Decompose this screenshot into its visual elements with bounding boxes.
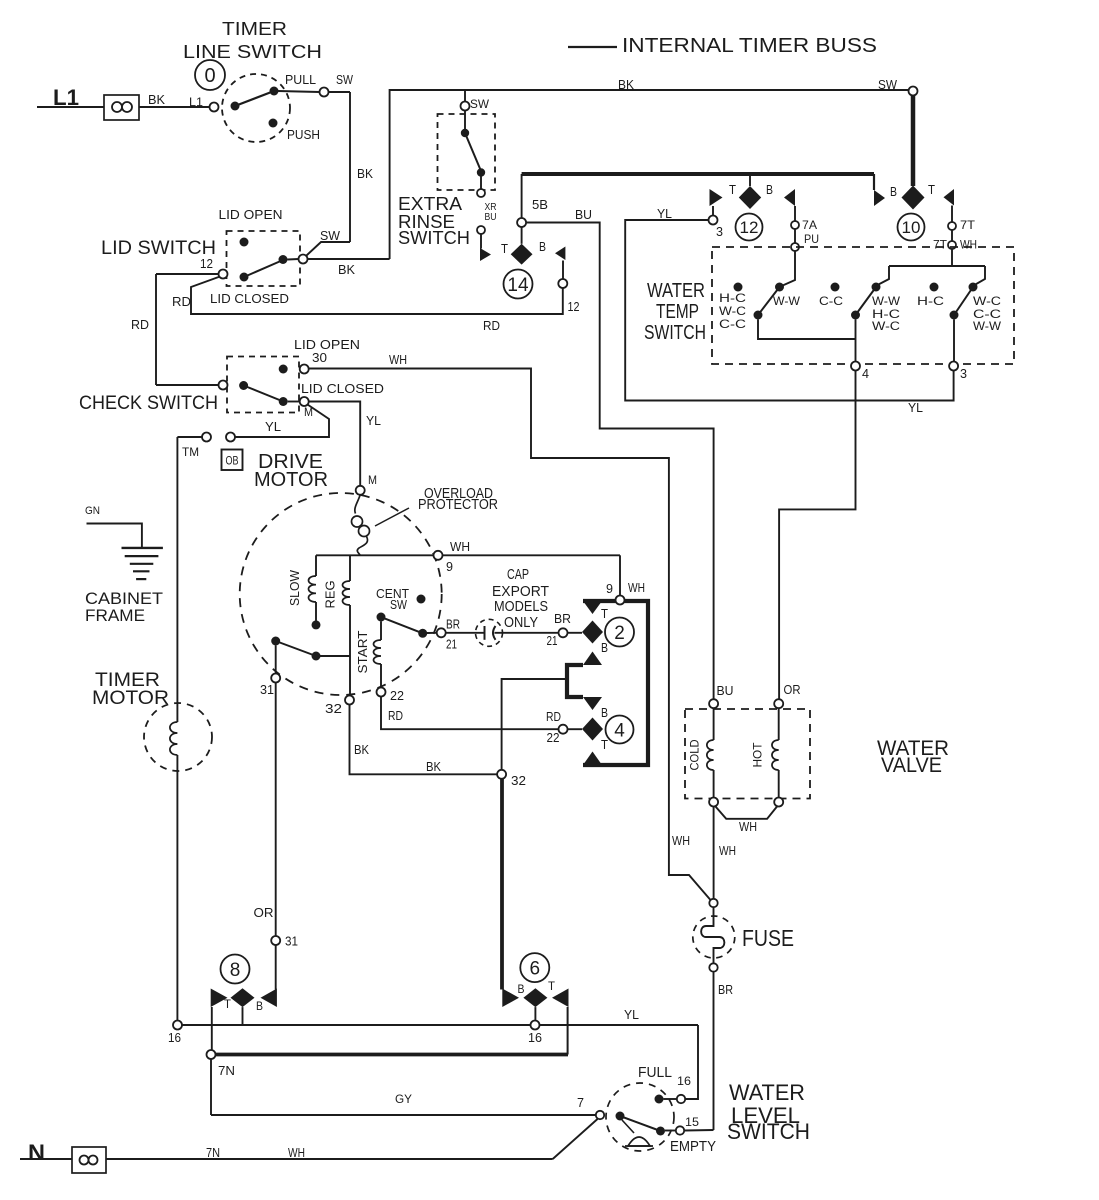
svg-text:SWITCH: SWITCH (727, 1119, 810, 1144)
svg-text:YL: YL (366, 413, 381, 428)
svg-text:C-C: C-C (819, 294, 843, 308)
svg-text:BK: BK (338, 262, 355, 277)
svg-text:SLOW: SLOW (287, 569, 302, 606)
svg-text:COLD: COLD (688, 739, 702, 770)
svg-text:SW: SW (390, 597, 408, 612)
svg-text:7N: 7N (218, 1063, 235, 1078)
svg-text:16: 16 (677, 1074, 691, 1088)
svg-text:FRAME: FRAME (85, 606, 145, 625)
svg-text:RD: RD (546, 709, 561, 724)
svg-text:MOTOR: MOTOR (254, 469, 328, 491)
svg-text:7N: 7N (206, 1145, 220, 1160)
svg-text:WATER: WATER (647, 280, 705, 302)
svg-text:EXTRA: EXTRA (398, 194, 462, 214)
svg-text:PUSH: PUSH (287, 127, 320, 142)
svg-text:H-C: H-C (917, 294, 944, 308)
svg-text:T: T (729, 182, 736, 197)
svg-text:MOTOR: MOTOR (92, 688, 169, 709)
svg-text:H-C: H-C (719, 291, 746, 305)
svg-text:W-C: W-C (719, 304, 746, 318)
svg-text:PROTECTOR: PROTECTOR (418, 497, 498, 513)
svg-text:31: 31 (260, 682, 274, 697)
svg-text:BU: BU (485, 212, 497, 223)
svg-text:VALVE: VALVE (881, 754, 942, 777)
svg-text:MODELS: MODELS (494, 598, 548, 615)
svg-text:BU: BU (717, 683, 734, 698)
svg-text:GN: GN (85, 505, 100, 517)
svg-text:T: T (224, 997, 232, 1011)
svg-text:7A: 7A (802, 218, 817, 232)
svg-text:WH: WH (960, 238, 977, 252)
svg-text:5B: 5B (532, 197, 548, 212)
svg-text:B: B (766, 182, 773, 197)
svg-text:GY: GY (395, 1092, 412, 1106)
svg-text:W-W: W-W (773, 294, 801, 308)
svg-text:8: 8 (230, 960, 241, 981)
svg-text:9: 9 (606, 581, 613, 596)
svg-text:LINE SWITCH: LINE SWITCH (183, 42, 322, 62)
svg-text:INTERNAL TIMER BUSS: INTERNAL TIMER BUSS (622, 35, 877, 57)
svg-text:EMPTY: EMPTY (670, 1138, 716, 1155)
svg-text:OB: OB (226, 454, 239, 468)
svg-text:32: 32 (511, 773, 526, 788)
svg-text:BK: BK (148, 92, 165, 107)
svg-text:T: T (601, 737, 608, 752)
svg-text:LID OPEN: LID OPEN (219, 207, 283, 222)
svg-text:16: 16 (168, 1030, 181, 1045)
svg-text:22: 22 (390, 688, 404, 703)
svg-text:9: 9 (446, 559, 453, 574)
svg-text:YL: YL (657, 206, 672, 221)
svg-text:OR: OR (784, 682, 801, 697)
svg-text:T: T (928, 182, 935, 197)
svg-text:6: 6 (530, 958, 541, 979)
svg-text:LID CLOSED: LID CLOSED (301, 381, 384, 396)
svg-text:32: 32 (325, 701, 342, 716)
svg-text:W-W: W-W (872, 294, 901, 308)
svg-text:B: B (601, 705, 608, 720)
svg-text:RD: RD (131, 317, 149, 332)
svg-text:RD: RD (483, 318, 500, 333)
svg-text:TIMER: TIMER (222, 19, 287, 39)
svg-text:T: T (601, 606, 608, 621)
svg-text:REG: REG (323, 581, 338, 609)
svg-text:7T: 7T (933, 238, 948, 252)
svg-text:CAP: CAP (507, 566, 529, 583)
svg-text:SW: SW (320, 228, 341, 243)
svg-text:3: 3 (716, 224, 723, 239)
svg-text:LID SWITCH: LID SWITCH (101, 238, 216, 259)
svg-text:WH: WH (719, 843, 736, 858)
svg-text:PULL: PULL (285, 72, 316, 87)
svg-text:15: 15 (685, 1115, 699, 1129)
svg-text:W-W: W-W (973, 319, 1002, 333)
svg-text:B: B (601, 640, 608, 655)
svg-text:B: B (256, 999, 263, 1013)
svg-text:PU: PU (804, 232, 819, 246)
svg-text:LID OPEN: LID OPEN (294, 337, 360, 352)
svg-text:B: B (890, 184, 897, 199)
svg-text:L1: L1 (189, 95, 203, 109)
svg-text:W-C: W-C (872, 319, 900, 333)
svg-text:BK: BK (426, 759, 441, 774)
svg-text:WATER: WATER (729, 1080, 805, 1105)
svg-text:4: 4 (862, 366, 869, 381)
svg-text:SW: SW (470, 97, 490, 111)
svg-text:BK: BK (357, 166, 373, 181)
svg-text:WH: WH (389, 352, 407, 367)
svg-text:BR: BR (554, 611, 571, 626)
svg-text:SWITCH: SWITCH (398, 228, 470, 248)
svg-text:FUSE: FUSE (742, 925, 794, 951)
svg-text:BK: BK (618, 77, 634, 92)
svg-text:B: B (539, 239, 546, 254)
svg-text:N: N (28, 1140, 45, 1165)
svg-text:7: 7 (577, 1095, 584, 1110)
svg-text:T: T (548, 979, 556, 993)
svg-text:7T: 7T (960, 218, 976, 232)
svg-text:31: 31 (285, 934, 298, 949)
svg-text:12: 12 (568, 299, 580, 314)
svg-text:LID CLOSED: LID CLOSED (210, 291, 289, 306)
svg-text:T: T (501, 241, 508, 256)
svg-text:M: M (368, 473, 377, 487)
svg-text:W-C: W-C (973, 294, 1001, 308)
svg-text:SW: SW (878, 77, 898, 92)
svg-text:SWITCH: SWITCH (644, 322, 706, 344)
svg-text:BK: BK (354, 742, 369, 757)
svg-text:10: 10 (902, 218, 921, 237)
svg-text:14: 14 (507, 275, 529, 296)
svg-text:YL: YL (265, 419, 281, 434)
svg-text:WH: WH (739, 819, 757, 834)
svg-text:2: 2 (614, 623, 625, 644)
svg-text:FULL: FULL (638, 1064, 672, 1081)
svg-text:OR: OR (254, 905, 274, 920)
svg-text:BR: BR (446, 617, 460, 632)
svg-text:21: 21 (446, 637, 457, 652)
svg-text:BR: BR (718, 982, 733, 997)
svg-text:WH: WH (450, 539, 470, 554)
svg-text:12: 12 (740, 218, 759, 237)
svg-text:START: START (355, 630, 370, 673)
svg-text:WH: WH (628, 580, 645, 595)
svg-text:TEMP: TEMP (656, 301, 699, 323)
svg-text:YL: YL (908, 400, 923, 415)
svg-text:21: 21 (547, 633, 558, 648)
svg-text:30: 30 (312, 350, 327, 365)
svg-text:CHECK SWITCH: CHECK SWITCH (79, 393, 218, 414)
svg-text:22: 22 (547, 730, 560, 745)
svg-text:TM: TM (182, 445, 199, 459)
svg-text:0: 0 (204, 65, 215, 87)
svg-text:RD: RD (388, 708, 403, 723)
svg-text:3: 3 (960, 366, 967, 381)
svg-text:B: B (518, 982, 525, 996)
svg-text:12: 12 (200, 256, 213, 271)
svg-text:WH: WH (288, 1145, 305, 1160)
svg-text:RD: RD (172, 294, 191, 309)
svg-text:YL: YL (624, 1007, 639, 1022)
svg-text:BU: BU (575, 207, 592, 222)
svg-text:C-C: C-C (719, 317, 746, 331)
svg-text:HOT: HOT (751, 742, 765, 768)
svg-text:ONLY: ONLY (504, 614, 538, 631)
svg-text:4: 4 (614, 720, 625, 741)
svg-text:16: 16 (528, 1030, 542, 1045)
svg-text:SW: SW (336, 72, 354, 87)
svg-text:WH: WH (672, 833, 690, 848)
